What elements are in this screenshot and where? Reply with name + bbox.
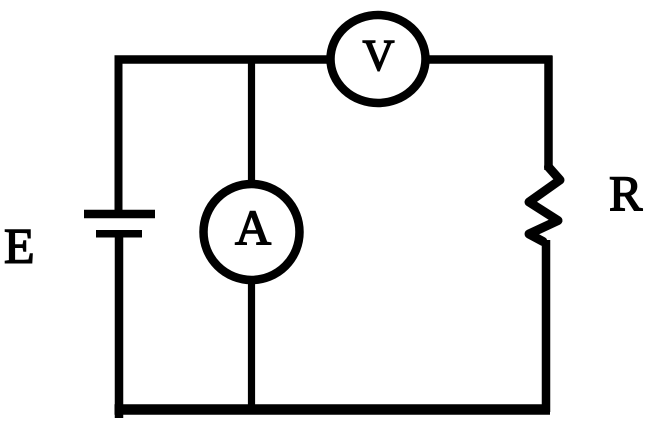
ammeter A meter circle [204, 184, 300, 280]
wire left vertical upper segment [115, 56, 123, 213]
wire middle vertical branch [248, 56, 255, 413]
svg-text:R: R [609, 165, 643, 221]
battery E long plate [84, 210, 155, 219]
svg-text:E: E [4, 218, 35, 274]
svg-text:A: A [235, 200, 271, 256]
battery E short plate [96, 230, 142, 238]
wire right vertical lower segment [542, 240, 551, 412]
wire left vertical lower segment [115, 234, 124, 418]
voltmeter V meter circle [331, 15, 426, 103]
resistor R zigzag body [529, 167, 560, 242]
wire right vertical upper segment [544, 56, 553, 171]
wire bottom return conductor [115, 404, 551, 415]
wire top conductor [115, 55, 553, 64]
svg-text:V: V [363, 31, 395, 80]
